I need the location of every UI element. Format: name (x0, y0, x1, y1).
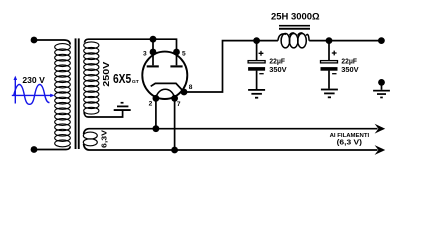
svg-text:GT: GT (132, 79, 139, 84)
svg-text:5: 5 (182, 51, 186, 58)
svg-text:350V: 350V (269, 65, 287, 74)
svg-text:25H 3000Ω: 25H 3000Ω (271, 12, 320, 22)
svg-text:AI FILAMENTI: AI FILAMENTI (330, 133, 370, 139)
svg-text:6X5: 6X5 (113, 72, 131, 86)
svg-text:22μF: 22μF (269, 57, 285, 66)
svg-text:2: 2 (149, 101, 153, 108)
svg-text:230 V: 230 V (22, 75, 45, 85)
svg-text:350V: 350V (341, 65, 359, 74)
svg-text:250V: 250V (102, 61, 111, 87)
svg-text:6,3V: 6,3V (100, 130, 109, 148)
svg-text:22μF: 22μF (341, 57, 357, 66)
svg-text:(6,3 V): (6,3 V) (337, 140, 362, 147)
svg-text:3: 3 (143, 51, 147, 58)
svg-text:8: 8 (189, 84, 193, 91)
svg-text:7: 7 (177, 101, 181, 108)
